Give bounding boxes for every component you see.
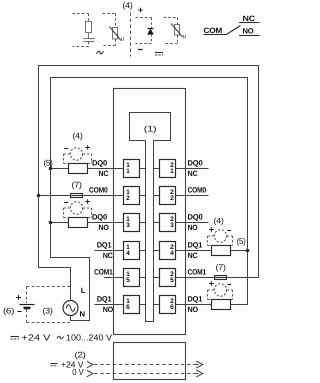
wire terminal 1/6 to trunk [140, 304, 146, 306]
svg-text:DQ0: DQ0 [92, 159, 107, 168]
wire DQ1 NC load to N bus [231, 250, 248, 252]
wire terminal 2/2 to module-right [176, 195, 186, 197]
wire COM1 right to L bus via fuse [186, 277, 259, 279]
wire trunk to terminal 2/2 [154, 195, 160, 197]
wire module-left to terminal 1/6 [114, 304, 124, 306]
svg-text:COM0: COM0 [188, 186, 207, 195]
wire L bus to COM0 via fuse [39, 195, 114, 197]
svg-text:COM0: COM0 [89, 186, 108, 195]
wire terminal 1/1 to trunk [140, 168, 146, 170]
AC symbol under suppressors [96, 51, 103, 54]
wire module-left to terminal 1/3 [114, 222, 124, 224]
RC snubber (AC suppressor) [73, 14, 95, 47]
DC symbol under suppressors [155, 53, 163, 56]
wire trunk to terminal 2/4 [154, 250, 160, 252]
terminal 1/4 (left, row 4) [124, 242, 140, 260]
dashed box: alternative DC supply [27, 287, 71, 323]
svg-text:0 V: 0 V [72, 367, 84, 377]
svg-text:NO: NO [98, 223, 109, 232]
svg-text:(5): (5) [237, 237, 247, 246]
junction N bus / DQ0 NO load [49, 221, 53, 225]
svg-text:N: N [80, 310, 86, 319]
DC symbol bottom left [11, 337, 20, 340]
svg-text:(6): (6) [3, 307, 15, 316]
svg-text:NC: NC [188, 251, 199, 260]
connector chevron 0V left [87, 370, 93, 377]
svg-text:(4): (4) [123, 1, 134, 10]
wire DQ0 row3 right stub [186, 222, 209, 224]
svg-text:(2): (2) [75, 351, 87, 360]
svg-text:+24 V: +24 V [22, 332, 51, 342]
svg-text:3: 3 [170, 222, 174, 229]
wire 0V dashed feed-through [94, 373, 195, 375]
wire module to DQ1 NO load (right) [186, 304, 212, 306]
internal trunk [146, 141, 154, 322]
module outline [114, 89, 186, 335]
load DQ1 NO (right): lamp + resistive load in dashed box [208, 281, 233, 309]
terminal 2/2 (right, row 2) [160, 187, 176, 205]
wire trunk to terminal 2/6 [154, 304, 160, 306]
svg-text:4: 4 [170, 250, 174, 257]
wire module-left to terminal 1/1 [114, 168, 124, 170]
load DQ1 NC (right): lamp + resistive load in dashed box [208, 227, 233, 255]
wire module to DQ1 NC load (right) [186, 250, 212, 252]
wire trunk to terminal 2/5 [154, 277, 160, 279]
connector chevron +24V left [87, 361, 93, 368]
svg-text:L: L [81, 286, 86, 295]
svg-text:NC: NC [103, 251, 114, 260]
wire trunk to terminal 2/1 [154, 168, 160, 170]
terminal 1/3 (left, row 3) [124, 214, 140, 232]
svg-text:NC: NC [98, 169, 109, 178]
wire terminal 2/4 to module-right [176, 250, 186, 252]
svg-text:(4): (4) [73, 132, 84, 141]
svg-text:1: 1 [170, 168, 174, 175]
svg-text:(1): (1) [144, 125, 157, 134]
svg-text:(5): (5) [44, 159, 54, 168]
terminal 1/2 (left, row 2) [124, 187, 140, 205]
wire terminal 1/5 to trunk [140, 277, 146, 279]
wire DQ0 NO load to module [88, 222, 114, 224]
svg-text:NO: NO [188, 305, 199, 314]
expansion interface box (2) [114, 343, 186, 380]
svg-text:5: 5 [126, 277, 130, 284]
svg-text:u: u [183, 33, 187, 40]
terminal 2/4 (right, row 4) [160, 242, 176, 260]
svg-text:NC: NC [188, 169, 199, 178]
svg-text:6: 6 [126, 304, 130, 311]
terminal 2/3 (right, row 3) [160, 214, 176, 232]
junction N bus / DQ0 NC load [49, 167, 53, 171]
wire DQ1 NC left stub [95, 250, 114, 252]
wire terminal 1/4 to trunk [140, 250, 146, 252]
AC source (3) 100...240V [63, 301, 78, 316]
svg-text:DQ1: DQ1 [97, 241, 113, 250]
separator dashed line between AC and DC suppressor groups [130, 13, 132, 57]
svg-text:(7): (7) [216, 263, 227, 272]
wire COM legend [204, 34, 227, 36]
varistor (DC suppressor) [164, 18, 187, 44]
svg-text:DQ0: DQ0 [188, 159, 203, 168]
terminal 2/1 (right, row 1) [160, 160, 176, 178]
svg-text:NO: NO [243, 27, 254, 36]
svg-text:100...240 V: 100...240 V [66, 332, 112, 342]
wire N bus to DQ0 NO load [51, 222, 69, 224]
wire L bus: from AC source L terminal around diagram to COM1 right [39, 66, 259, 302]
terminal 2/6 (right, row 6) [160, 296, 176, 314]
wire DQ0 NC load to module [88, 168, 114, 170]
arrow 0V right [195, 370, 203, 377]
wire DQ0 row1 right stub [186, 168, 209, 170]
battery (6) DC 24V [16, 295, 35, 312]
svg-text:(7): (7) [72, 181, 83, 190]
wire NC legend [239, 22, 260, 24]
svg-text:DQ1: DQ1 [188, 241, 204, 250]
wire COM1 left stub [104, 277, 114, 279]
svg-text:NO: NO [188, 223, 198, 232]
wire N bus: from AC source N terminal around diagram to DQ1 NO load right [51, 78, 248, 321]
wire terminal 1/2 to trunk [140, 195, 146, 197]
svg-text:4: 4 [126, 250, 130, 257]
varistor (AC suppressor) [103, 14, 125, 46]
load DQ0 NC (left): lamp + resistive load in dashed box [64, 145, 92, 173]
svg-text:NC: NC [243, 14, 256, 23]
terminal 1/1 (left, row 1) [124, 160, 140, 178]
wire COM0 row2 right stub [186, 195, 209, 197]
svg-text:2: 2 [126, 195, 130, 202]
svg-text:5: 5 [170, 277, 174, 284]
wire terminal 2/3 to module-right [176, 222, 186, 224]
svg-text:DQ0: DQ0 [92, 213, 107, 222]
terminal 1/6 (left, row 6) [124, 296, 140, 314]
svg-text:1: 1 [126, 168, 130, 175]
freewheeling diode (DC suppressor) [136, 8, 154, 50]
wire terminal 2/5 to module-right [176, 277, 186, 279]
svg-text:(4): (4) [214, 217, 225, 226]
wire trunk to terminal 2/3 [154, 222, 160, 224]
svg-text:3: 3 [126, 222, 130, 229]
wire module-left to terminal 1/2 [114, 195, 124, 197]
svg-text:DQ1: DQ1 [188, 295, 204, 304]
fuse (7) right [215, 276, 227, 280]
fuse (7) left [71, 194, 83, 198]
svg-text:6: 6 [170, 304, 174, 311]
terminal 1/5 (left, row 5) [124, 269, 140, 287]
svg-text:COM: COM [204, 26, 223, 35]
wire terminal 1/3 to trunk [140, 222, 146, 224]
load DQ0 NO (left): lamp + resistive load in dashed box [64, 199, 92, 227]
wire module-left to terminal 1/4 [114, 250, 124, 252]
logic unit (1) box [130, 113, 171, 141]
wire terminal 2/1 to module-right [176, 168, 186, 170]
svg-text:NO: NO [103, 305, 114, 314]
contact blade COM-NC [226, 26, 240, 35]
svg-text:DQ1: DQ1 [97, 295, 113, 304]
wire +24V dashed feed-through [94, 364, 195, 366]
DC symbol for +24V feed [51, 364, 58, 366]
svg-text:2: 2 [170, 195, 174, 202]
wire DQ1 NO left stub [95, 304, 114, 306]
svg-text:COM1: COM1 [94, 268, 113, 277]
terminal 2/5 (right, row 5) [160, 269, 176, 287]
junction L bus / COM0 wire [37, 194, 41, 198]
wire module-left to terminal 1/5 [114, 277, 124, 279]
svg-text:(3): (3) [43, 307, 54, 316]
wire N bus to DQ0 NC load [51, 168, 69, 170]
svg-text:DQ0: DQ0 [188, 213, 203, 222]
AC tilde bottom [57, 336, 64, 338]
svg-text:COM1: COM1 [188, 268, 207, 277]
arrow +24V right [195, 361, 203, 368]
wire terminal 2/6 to module-right [176, 304, 186, 306]
svg-text:u: u [121, 35, 125, 42]
wire NO legend [239, 35, 260, 37]
junction N bus / DQ1 NC load [246, 249, 250, 253]
